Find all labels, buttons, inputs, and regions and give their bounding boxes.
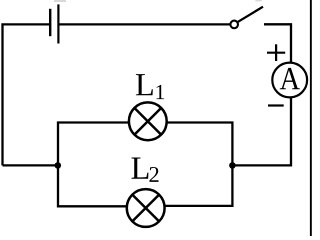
- label L2 letter L: [132, 157, 149, 178]
- ammeter plus label: [267, 44, 285, 61]
- label L2 subscript 2: [150, 167, 159, 182]
- lamp L2 cross: [132, 194, 160, 222]
- wire: ammeter to mid-right corner and to junction: [232, 98, 291, 166]
- switch S lever (open): [238, 7, 263, 22]
- ammeter letter A: [280, 68, 300, 89]
- artifact smudge above battery plate: [54, 0, 66, 2]
- label L1 letter L: [136, 74, 153, 95]
- switch S pivot circle: [230, 21, 238, 29]
- lamp L2 circle: [127, 189, 165, 227]
- wire: right branch (L1 right, right vertical, L2 right): [165, 123, 232, 206]
- ammeter U1 circle: [272, 63, 307, 98]
- wire: left branch (L1 left, left vertical, L2 left): [58, 123, 129, 207]
- junction node left: [55, 162, 62, 169]
- lamp L1 cross: [134, 108, 162, 136]
- lamp L1 circle: [129, 102, 167, 140]
- junction node right: [229, 162, 236, 169]
- ammeter minus label: [268, 104, 284, 106]
- battery B1 negative short plate: [49, 9, 51, 36]
- page border line (right edge): [310, 0, 312, 236]
- artifact smudge above switch lever: [255, 0, 261, 1]
- wire: mid-left horizontal to junction: [3, 164, 59, 166]
- label L1 subscript 1: [157, 85, 165, 99]
- battery B1 positive long plate: [57, 4, 59, 43]
- wire: switch to right corner, down to ammeter: [264, 24, 291, 62]
- wire: left vertical + top-left segment to battery: [3, 24, 50, 165]
- wire: battery to switch: [59, 23, 230, 25]
